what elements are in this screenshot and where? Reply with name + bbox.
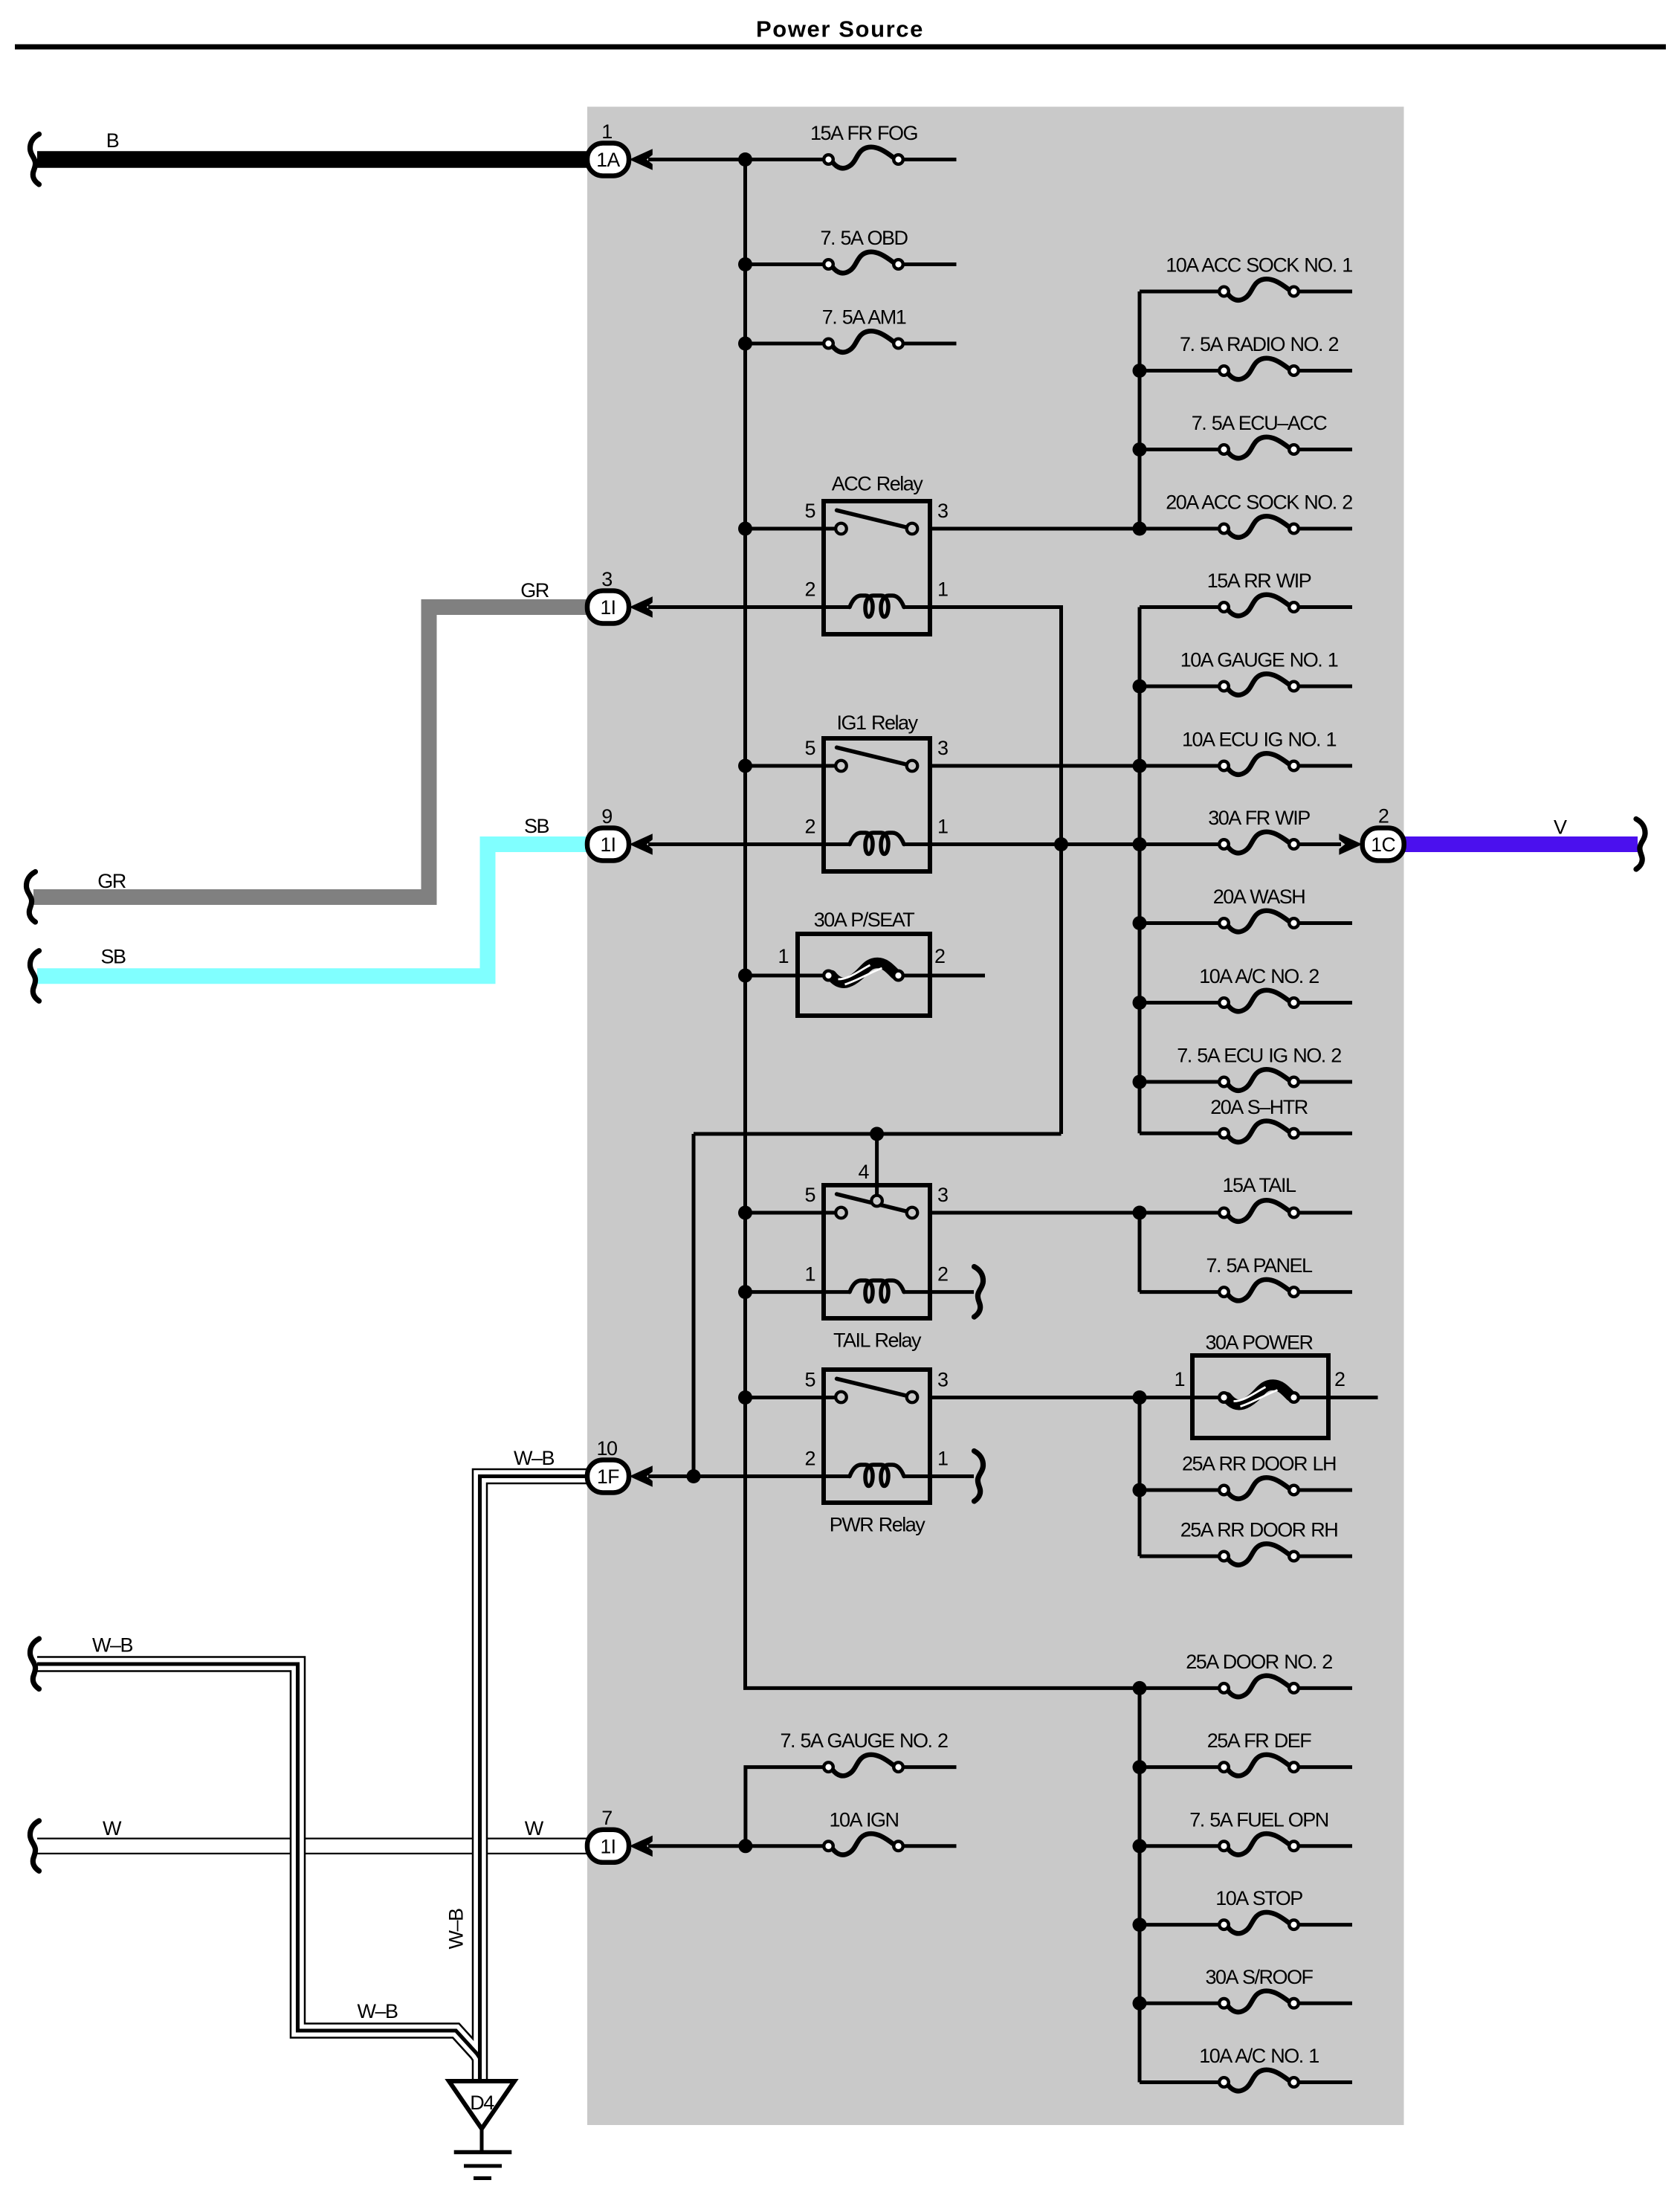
junction, main bus at ACC relay pin 5 <box>738 522 752 536</box>
svg-text:20A S–HTR: 20A S–HTR <box>1210 1096 1308 1118</box>
svg-text:W: W <box>525 1817 544 1840</box>
svg-text:15A FR FOG: 15A FR FOG <box>810 122 917 144</box>
junction, IG bank bus at GAUGE NO.1 <box>1133 680 1147 694</box>
wire, IG fuse bank bus <box>1138 607 1142 1134</box>
wire, PWR relay pin 3 to 30A POWER fusible link <box>930 1396 1224 1399</box>
svg-text:2: 2 <box>937 1263 948 1286</box>
wire, 20A WASH tail <box>1294 921 1353 925</box>
junction, bottom bank bus at FUEL OPN <box>1133 1839 1147 1853</box>
connector 1F pin 10 (W-B) <box>587 1460 653 1493</box>
wire, link drop to 1F row <box>692 1134 696 1477</box>
svg-text:W–B: W–B <box>357 2000 398 2022</box>
wire, connector 1I (GR) to ACC relay pin 2 <box>648 605 850 609</box>
svg-text:9: 9 <box>601 805 612 828</box>
wire, PWR relay pin 1 to break <box>904 1474 974 1478</box>
svg-text:1: 1 <box>937 578 948 601</box>
break symbol, PWR relay pin 1 lead <box>975 1451 983 1502</box>
svg-text:25A DOOR NO. 2: 25A DOOR NO. 2 <box>1186 1651 1332 1673</box>
svg-text:GR: GR <box>520 579 549 602</box>
svg-text:15A RR WIP: 15A RR WIP <box>1207 570 1311 592</box>
junction, bottom bank bus at FR DEF <box>1133 1760 1147 1774</box>
wire, 7.5A GAUGE NO.2 tail <box>899 1765 957 1769</box>
wire W-B from connector 1F down to ground D4 <box>480 1477 588 2083</box>
break symbol, TAIL relay pin 2 lead <box>975 1267 983 1318</box>
fuse 10A ECU IG NO. 1 <box>1219 753 1299 775</box>
wire, IG1 relay pin 3 to IG fuse bank / 10A ECU IG NO.1 <box>930 764 1224 768</box>
fusible link 30A POWER <box>1192 1355 1328 1438</box>
svg-text:2: 2 <box>804 578 815 601</box>
junction, IG bank bus at FR WIP <box>1133 837 1147 851</box>
fuse 10A ACC SOCK NO. 1 <box>1219 279 1299 300</box>
fuse 7. 5A PANEL <box>1219 1280 1299 1301</box>
wire, 15A TAIL tail <box>1294 1211 1353 1215</box>
TAIL relay pin 4 contact <box>871 1196 882 1207</box>
svg-text:10A ACC SOCK NO. 1: 10A ACC SOCK NO. 1 <box>1166 254 1352 277</box>
junction, link line at TAIL pin 4 stub <box>870 1127 884 1141</box>
fuse 25A FR DEF <box>1219 1755 1299 1776</box>
wire, 25A RR DOOR LH branch <box>1140 1489 1224 1492</box>
wire, bus to TAIL relay pin 1 <box>746 1290 850 1294</box>
svg-text:10A GAUGE NO. 1: 10A GAUGE NO. 1 <box>1180 649 1338 671</box>
wire, 25A FR DEF tail <box>1294 1765 1353 1769</box>
wire, 7.5A ECU IG NO.2 branch <box>1140 1080 1224 1084</box>
junction, ACC bank bus at ACC SOCK NO.2 <box>1133 522 1147 536</box>
svg-text:PWR Relay: PWR Relay <box>830 1514 926 1536</box>
wire, 7.5A OBD branch <box>746 262 829 266</box>
svg-text:2: 2 <box>1378 805 1389 828</box>
svg-text:3: 3 <box>937 1184 948 1206</box>
junction, main bus at TAIL relay pin 1 <box>738 1285 752 1299</box>
wire, 25A RR DOOR RH branch <box>1140 1555 1224 1558</box>
relay ACC Relay <box>824 501 930 634</box>
connector 1I pin 3 (GR) <box>587 591 653 624</box>
wire, main feed bus from 1A row down and right to bottom fuse bank <box>746 160 1140 1689</box>
svg-text:V: V <box>1554 816 1567 839</box>
break symbol, SB wire left end <box>30 951 39 1002</box>
svg-text:5: 5 <box>804 500 815 522</box>
svg-text:1F: 1F <box>597 1466 619 1488</box>
wire, bus to PWR relay pin 5 <box>746 1396 841 1399</box>
svg-text:W–B: W–B <box>92 1634 133 1657</box>
svg-text:7. 5A FUEL OPN: 7. 5A FUEL OPN <box>1189 1808 1328 1831</box>
svg-text:7. 5A PANEL: 7. 5A PANEL <box>1206 1254 1313 1277</box>
svg-text:7: 7 <box>601 1807 612 1829</box>
fuse 7. 5A AM1 <box>824 331 903 352</box>
svg-text:3: 3 <box>937 1369 948 1391</box>
wire, 7.5A FUEL OPN tail <box>1294 1844 1353 1848</box>
wire, 10A ACC SOCK NO.1 branch <box>1140 290 1224 294</box>
svg-text:W: W <box>103 1817 122 1840</box>
svg-text:TAIL Relay: TAIL Relay <box>833 1329 922 1352</box>
wire B (battery feed, thick black) <box>37 151 587 168</box>
wire, 10A STOP branch <box>1140 1923 1224 1927</box>
wire, 7.5A PANEL tail <box>1294 1290 1353 1294</box>
relay TAIL Relay <box>824 1185 930 1318</box>
junction, POWER bank bus at RR DOOR LH <box>1133 1483 1147 1497</box>
wire, 10A STOP tail <box>1294 1923 1353 1927</box>
junction, main bus at TAIL relay pin 5 <box>738 1206 752 1220</box>
svg-text:1: 1 <box>601 120 612 143</box>
wire, 10A A/C NO.1 branch <box>1140 2080 1224 2084</box>
svg-text:10: 10 <box>596 1437 617 1460</box>
fuse 10A STOP <box>1219 1912 1299 1934</box>
junction, ACC bank bus at ECU-ACC <box>1133 442 1147 457</box>
junction, IG bank bus at WASH <box>1133 916 1147 930</box>
wire, 20A WASH branch <box>1140 921 1224 925</box>
break symbol, GR wire left end <box>26 872 35 923</box>
svg-text:7. 5A OBD: 7. 5A OBD <box>820 227 908 249</box>
svg-text:W–B: W–B <box>445 1909 468 1950</box>
junction, IG bank bus at ECU IG NO.2 <box>1133 1075 1147 1089</box>
svg-text:25A RR DOOR RH: 25A RR DOOR RH <box>1180 1519 1338 1541</box>
title rule <box>15 45 1666 50</box>
svg-text:1C: 1C <box>1371 834 1395 856</box>
svg-text:25A FR DEF: 25A FR DEF <box>1207 1729 1312 1752</box>
svg-text:7. 5A GAUGE NO. 2: 7. 5A GAUGE NO. 2 <box>780 1729 948 1752</box>
relay PWR Relay <box>824 1370 930 1503</box>
connector 1C pin 2 (V) <box>1339 828 1403 861</box>
wire GR (gray) <box>33 607 587 897</box>
junction, ACC bank bus at RADIO NO.2 <box>1133 364 1147 378</box>
wire, ACC fuse bank bus <box>1138 291 1142 529</box>
wire, bus to ACC relay pin 5 <box>746 527 841 531</box>
svg-text:1I: 1I <box>600 1835 616 1857</box>
svg-text:20A ACC SOCK NO. 2: 20A ACC SOCK NO. 2 <box>1166 491 1352 514</box>
wire, 20A ACC SOCK NO.2 tail <box>1294 527 1353 531</box>
junction, coil return link at IG1 pin 1 row <box>1054 837 1068 851</box>
wire, coil return link line to TAIL relay pin 4 and 1F drop <box>694 1132 1062 1136</box>
wire, 20A ACC SOCK NO.2 branch <box>1140 527 1224 531</box>
wire, POWER fuse bank bus <box>1138 1398 1142 1557</box>
wire, 7.5A RADIO NO.2 tail <box>1294 369 1353 373</box>
break symbol, B wire left end <box>30 135 39 185</box>
svg-text:1: 1 <box>937 816 948 838</box>
svg-text:3: 3 <box>937 500 948 522</box>
fuse 30A S/ROOF <box>1219 1991 1299 2013</box>
svg-text:SB: SB <box>100 946 126 968</box>
wire, bus to 30A P/SEAT <box>746 974 829 978</box>
junction, main bus at 7.5A OBD <box>738 257 752 271</box>
wire, bottom fuse bank bus <box>1138 1688 1142 2082</box>
svg-text:2: 2 <box>804 816 815 838</box>
svg-text:5: 5 <box>804 1184 815 1206</box>
fuse 25A RR DOOR RH <box>1219 1544 1299 1565</box>
wire, connector 1I (SB) to IG1 relay pin 2 <box>648 842 850 846</box>
svg-text:20A WASH: 20A WASH <box>1213 886 1305 908</box>
wire SB (sky blue) <box>37 845 587 976</box>
svg-text:5: 5 <box>804 737 815 759</box>
wire, 10A ECU IG NO.1 tail <box>1294 764 1353 768</box>
wire, 7.5A FUEL OPN branch <box>1140 1844 1224 1848</box>
fuse 7. 5A FUEL OPN <box>1219 1834 1299 1855</box>
junction, main bus at 1A row <box>738 152 752 167</box>
fuse 15A RR WIP <box>1219 595 1299 616</box>
svg-text:3: 3 <box>937 737 948 759</box>
wire, 10A A/C NO.1 tail <box>1294 2080 1353 2084</box>
junction, link drop at 1F row <box>687 1469 701 1483</box>
svg-text:D4: D4 <box>470 2092 494 2114</box>
svg-text:4: 4 <box>858 1161 869 1183</box>
break symbol, W-B wire left end <box>30 1639 39 1689</box>
svg-text:1: 1 <box>1174 1368 1184 1390</box>
svg-text:5: 5 <box>804 1369 815 1391</box>
svg-text:30A FR WIP: 30A FR WIP <box>1208 807 1310 829</box>
svg-text:10A A/C NO. 2: 10A A/C NO. 2 <box>1199 965 1319 987</box>
wire, TAIL relay pin 2 to break <box>904 1290 974 1294</box>
wire, 30A POWER tail <box>1294 1396 1378 1399</box>
wire, 7.5A AM1 branch <box>746 342 829 346</box>
wire, 25A DOOR NO.2 branch <box>1140 1686 1224 1690</box>
wire, 30A FR WIP tail to connector 1C <box>1294 842 1342 846</box>
svg-text:30A S/ROOF: 30A S/ROOF <box>1205 1966 1313 1988</box>
fuse 7. 5A GAUGE NO. 2 <box>824 1755 903 1776</box>
wire, connector 1I (W) to 10A IGN fuse <box>648 1844 829 1848</box>
svg-text:2: 2 <box>804 1448 815 1470</box>
svg-text:15A TAIL: 15A TAIL <box>1222 1174 1296 1196</box>
fusible link 30A P/SEAT <box>798 934 930 1016</box>
svg-text:7. 5A ECU IG NO. 2: 7. 5A ECU IG NO. 2 <box>1177 1045 1341 1067</box>
junction, bottom bank bus at S/ROOF <box>1133 1996 1147 2011</box>
wire, 10A A/C NO.2 branch <box>1140 1001 1224 1005</box>
junction, TAIL bank bus at 15A TAIL <box>1133 1206 1147 1220</box>
wire, 25A RR DOOR LH tail <box>1294 1489 1353 1492</box>
fuse 15A FR FOG <box>824 147 903 169</box>
wire, 25A RR DOOR RH tail <box>1294 1555 1353 1558</box>
fuse 20A S-HTR <box>1219 1121 1299 1143</box>
wire, 7.5A RADIO NO.2 branch <box>1140 369 1224 373</box>
svg-text:7. 5A ECU–ACC: 7. 5A ECU–ACC <box>1192 412 1328 434</box>
wire, 30A S/ROOF tail <box>1294 2002 1353 2005</box>
wire, 20A S-HTR tail <box>1294 1132 1353 1135</box>
wire, 10A GAUGE NO.1 branch <box>1140 685 1224 689</box>
wire W (white) to connector 7/1I <box>37 1838 587 1855</box>
fuse 7. 5A OBD <box>824 252 903 274</box>
junction, main bus at PWR relay pin 5 <box>738 1390 752 1405</box>
svg-text:Power Source: Power Source <box>756 16 924 42</box>
junction, main bus at IG1 relay pin 5 <box>738 759 752 773</box>
wire, 15A FR FOG fuse tail <box>899 158 957 161</box>
svg-text:1: 1 <box>804 1263 815 1286</box>
wire, 10A A/C NO.2 tail <box>1294 1001 1353 1005</box>
junction, main bus at 30A P/SEAT <box>738 969 752 983</box>
svg-text:2: 2 <box>934 945 945 967</box>
wire, TAIL relay pin 4 stub <box>875 1134 879 1199</box>
wire, connector 1F to PWR relay pin 2 <box>648 1474 850 1478</box>
junction block background <box>587 107 1404 2126</box>
wire, 7.5A ECU-ACC branch <box>1140 448 1224 451</box>
wire, 1A row to 15A FR FOG fuse <box>648 158 829 161</box>
svg-text:1: 1 <box>937 1448 948 1470</box>
svg-text:W–B: W–B <box>514 1447 555 1469</box>
wire, bus to TAIL relay pin 5 <box>746 1211 841 1215</box>
wire, 30A P/SEAT tail <box>899 974 986 978</box>
svg-text:7. 5A AM1: 7. 5A AM1 <box>822 306 906 329</box>
junction, bottom bank bus at DOOR NO.2 <box>1133 1681 1147 1695</box>
connector 1I pin 9 (SB) <box>587 828 653 861</box>
svg-text:ACC Relay: ACC Relay <box>832 473 924 495</box>
fuse 25A RR DOOR LH <box>1219 1477 1299 1499</box>
svg-text:10A ECU IG NO. 1: 10A ECU IG NO. 1 <box>1182 729 1337 751</box>
svg-text:SB: SB <box>524 815 549 837</box>
wire, TAIL relay pin 3 to 15A TAIL fuse <box>929 1211 1224 1215</box>
wire, 30A S/ROOF branch <box>1140 2002 1224 2005</box>
connector 1I pin 7 (W) <box>587 1830 653 1863</box>
svg-text:1I: 1I <box>600 596 616 619</box>
relay IG1 Relay <box>824 738 930 871</box>
fuse 10A IGN <box>824 1834 903 1855</box>
fuse 25A DOOR NO. 2 <box>1219 1676 1299 1697</box>
svg-text:2: 2 <box>1334 1368 1345 1390</box>
wire V (violet) from connector 1C <box>1404 836 1638 852</box>
wire, 10A GAUGE NO.1 tail <box>1294 685 1353 689</box>
junction, IG bank bus at A/C NO.2 <box>1133 996 1147 1010</box>
wire, 25A DOOR NO.2 tail <box>1294 1686 1353 1690</box>
connector 1A pin 1 <box>587 144 653 176</box>
junction, IG bank bus at ECU IG NO.1 <box>1133 759 1147 773</box>
wire, 10A IGN tail <box>899 1844 957 1848</box>
fuse 7. 5A ECU IG NO. 2 <box>1219 1069 1299 1091</box>
svg-text:B: B <box>106 129 119 152</box>
fuse 7. 5A ECU-ACC <box>1219 437 1299 459</box>
wire, 25A FR DEF branch <box>1140 1765 1224 1769</box>
junction, POWER bank bus at 30A POWER <box>1133 1390 1147 1405</box>
wire W-B from left break to ground junction <box>37 1664 480 2058</box>
junction, bottom bank bus at STOP <box>1133 1918 1147 1932</box>
wire, 15A RR WIP branch <box>1140 605 1224 609</box>
wire, 7.5A OBD fuse tail <box>899 262 957 266</box>
svg-text:GR: GR <box>97 870 126 892</box>
fuse 10A A/C NO. 1 <box>1219 2070 1299 2092</box>
wire, 7.5A ECU-ACC tail <box>1294 448 1353 451</box>
svg-text:IG1 Relay: IG1 Relay <box>836 712 918 734</box>
svg-text:30A P/SEAT: 30A P/SEAT <box>814 909 915 931</box>
wire, 15A RR WIP tail <box>1294 605 1353 609</box>
svg-text:25A RR DOOR LH: 25A RR DOOR LH <box>1182 1453 1336 1475</box>
svg-text:10A A/C NO. 1: 10A A/C NO. 1 <box>1199 2045 1319 2067</box>
break symbol, W wire left end <box>30 1821 39 1871</box>
svg-text:7. 5A RADIO NO. 2: 7. 5A RADIO NO. 2 <box>1180 333 1339 355</box>
wire, 20A S-HTR branch <box>1140 1132 1224 1135</box>
junction, main bus at 7.5A AM1 <box>738 337 752 351</box>
wire, 10A ACC SOCK NO.1 tail <box>1294 290 1353 294</box>
fuse 7. 5A RADIO NO. 2 <box>1219 358 1299 380</box>
fuse 20A WASH <box>1219 911 1299 932</box>
svg-text:10A IGN: 10A IGN <box>829 1808 898 1831</box>
fuse 15A TAIL <box>1219 1200 1299 1222</box>
fuse 10A A/C NO. 2 <box>1219 990 1299 1012</box>
svg-text:1I: 1I <box>600 834 616 856</box>
fuse 10A GAUGE NO. 1 <box>1219 674 1299 695</box>
wire, 7.5A PANEL branch <box>1140 1290 1224 1294</box>
svg-text:3: 3 <box>601 568 612 590</box>
wire, IG1 relay pin 1 to 30A FR WIP row <box>904 842 1224 846</box>
svg-text:10A STOP: 10A STOP <box>1215 1887 1302 1909</box>
wire, bus to IG1 relay pin 5 <box>746 764 841 768</box>
junction, IGN row to GAUGE NO.2 branch <box>738 1839 752 1853</box>
ground hatch <box>454 2129 512 2179</box>
svg-text:30A POWER: 30A POWER <box>1205 1332 1313 1354</box>
svg-text:1A: 1A <box>596 149 620 171</box>
wire, ACC relay pin 3 to ACC fuse bank <box>930 527 1140 531</box>
break symbol, V wire right end <box>1636 819 1645 870</box>
svg-text:1: 1 <box>778 945 788 967</box>
wire, 7.5A GAUGE NO.2 branch from IGN row <box>746 1767 829 1846</box>
wire, 7.5A AM1 fuse tail <box>899 342 957 346</box>
fuse 20A ACC SOCK NO. 2 <box>1219 516 1299 538</box>
wire, 7.5A ECU IG NO.2 tail <box>1294 1080 1353 1084</box>
wire, ACC relay pin 1 down to link node <box>904 607 1062 1135</box>
ground D4 triangle <box>449 2081 514 2129</box>
fuse 30A FR WIP <box>1219 832 1299 854</box>
wire, TAIL fuse bank bus <box>1138 1213 1142 1292</box>
